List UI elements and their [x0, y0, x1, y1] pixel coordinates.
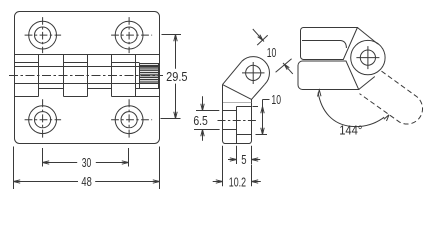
hole bottom-right — [111, 99, 152, 138]
tangent line lower junction to barrel — [359, 77, 375, 90]
svg-text:5: 5 — [241, 152, 246, 167]
svg-text:29.5: 29.5 — [166, 69, 187, 84]
knuckle joint vertical 5 — [135, 55, 137, 97]
barrel outer top line — [15, 62, 140, 64]
dimension 30 — [43, 148, 129, 167]
knuckle joint vertical 3 — [87, 55, 89, 97]
tangent line peak to barrel — [357, 28, 377, 45]
dimension 10.2 — [213, 146, 261, 187]
opened leaf phantom outline — [360, 71, 423, 124]
bottom plate top edge — [15, 96, 160, 98]
body step line upper — [223, 110, 237, 112]
bent leaf inner edge — [223, 85, 252, 100]
lower leaf (solid) — [298, 61, 359, 90]
dimension 6.5 — [194, 96, 220, 141]
knuckle joint vertical 2 — [63, 55, 65, 97]
top plate bottom edge — [15, 54, 160, 56]
pin crosshair (side) — [242, 62, 265, 84]
knuckle joint vertical 4 — [111, 55, 113, 97]
body step line lower — [223, 129, 237, 131]
hole top-right — [111, 17, 152, 53]
pin sleeve bottom line — [15, 83, 159, 85]
side hole center line — [218, 120, 257, 122]
svg-text:144°: 144° — [339, 122, 362, 137]
hinge plate outline — [15, 12, 160, 144]
hole bottom-left — [25, 99, 62, 138]
dimension 29.5 — [161, 35, 182, 119]
upper leaf step line — [302, 41, 346, 49]
svg-text:10: 10 — [267, 45, 277, 60]
tongue top edge — [237, 106, 252, 108]
hole top-left — [25, 17, 62, 53]
barrel lower edge — [252, 84, 265, 99]
tongue vertical — [236, 107, 238, 144]
knurled pin end block — [140, 64, 159, 89]
tongue bottom edge — [237, 134, 252, 136]
bent leaf upper edge — [223, 61, 242, 84]
svg-text:10.2: 10.2 — [229, 174, 246, 189]
body top face line — [223, 102, 252, 104]
upper leaf (solid) — [301, 28, 358, 60]
angle arc 144 — [318, 90, 390, 127]
dimension 48 — [14, 147, 160, 190]
svg-text:48: 48 — [81, 174, 91, 189]
pin sleeve top line — [15, 66, 159, 68]
barrel outer circle — [351, 40, 385, 74]
pin circle (side) — [246, 65, 261, 80]
pin crosshair (right) — [356, 46, 379, 69]
barrel nose arc — [242, 57, 270, 85]
dimension 5 — [228, 146, 260, 164]
body left edge and bottom — [223, 85, 252, 144]
svg-text:6.5: 6.5 — [193, 113, 208, 128]
barrel outer bottom line — [39, 88, 160, 90]
dimension 10 top (plate thickness) — [253, 29, 293, 74]
dimension 10 right — [253, 100, 270, 135]
pin circle (right) — [360, 50, 375, 65]
knuckle joint vertical 1 — [38, 55, 40, 97]
svg-text:30: 30 — [82, 155, 92, 170]
svg-text:10: 10 — [271, 92, 281, 107]
barrel center line — [9, 75, 163, 77]
